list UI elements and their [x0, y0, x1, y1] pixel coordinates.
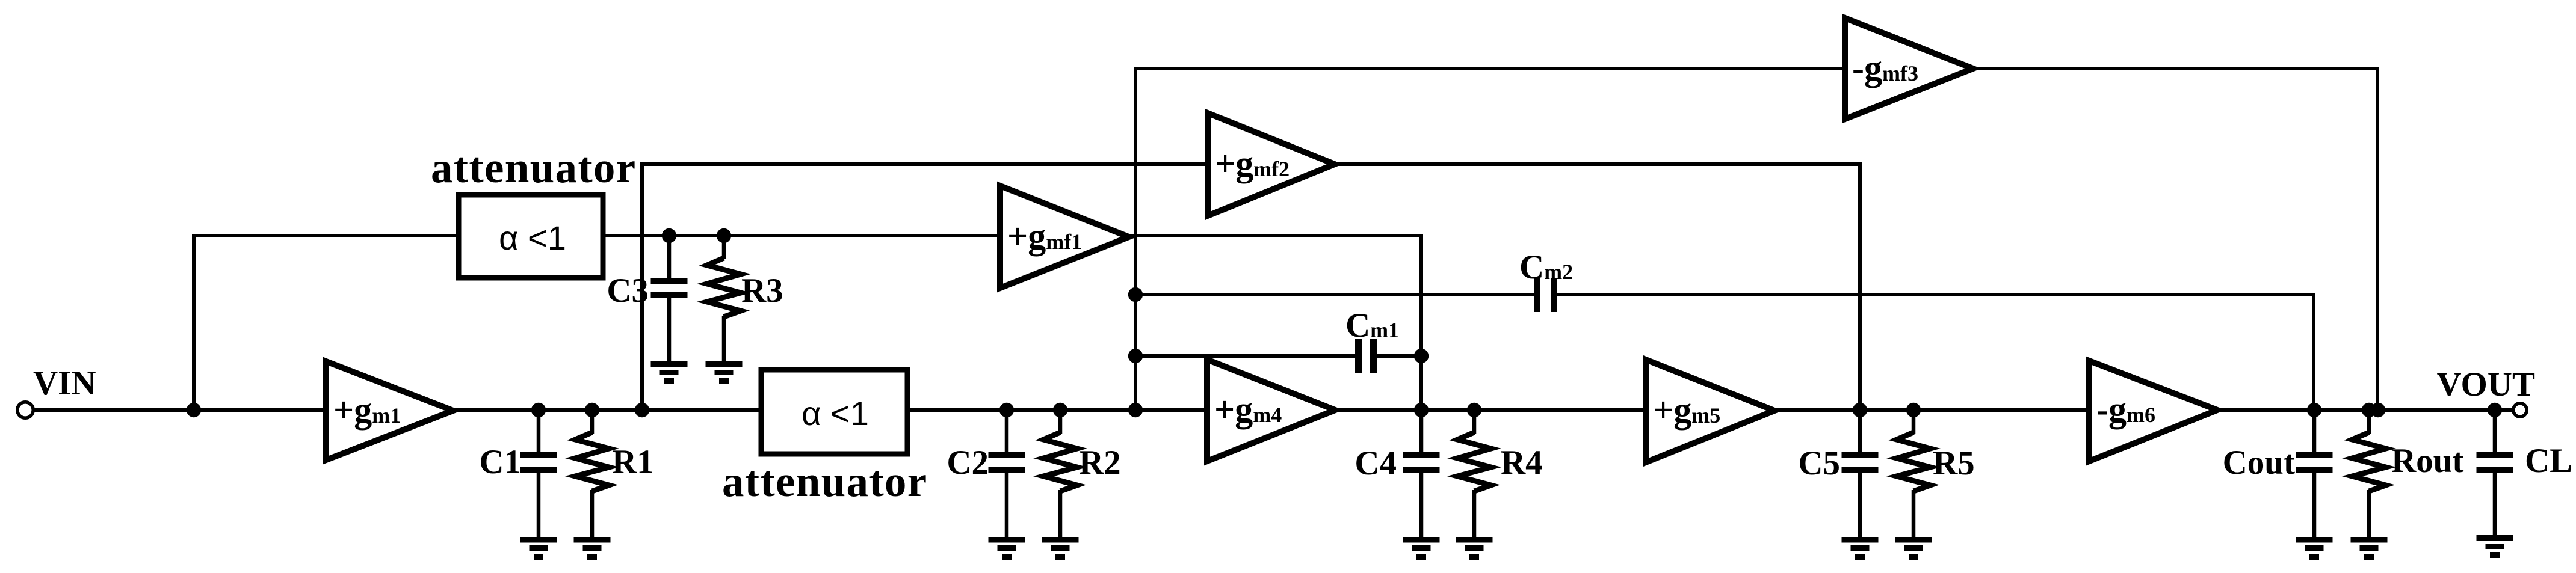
junction node A (gm1 output to gmf2 branch)	[635, 403, 649, 417]
amplifier gmf3	[1845, 18, 1973, 119]
svg-text:Rout: Rout	[2391, 442, 2463, 480]
capacitor Cout	[2296, 410, 2333, 537]
capacitor C1	[520, 410, 557, 537]
resistor Rout	[2352, 410, 2386, 537]
amplifier gm5	[1646, 360, 1774, 462]
junction node gm1 output at R1	[585, 403, 599, 417]
svg-text:C4: C4	[1354, 444, 1397, 482]
amplifier gmf1	[1000, 186, 1129, 288]
ground for R4	[1456, 537, 1493, 560]
amplifier gm6	[2089, 361, 2217, 461]
capacitor CL	[2477, 410, 2513, 535]
ground for Rout	[2351, 537, 2388, 560]
junction node B (gm4 input branch)	[1128, 403, 1143, 417]
wire attenuator 2 output to gm4 input	[904, 408, 1210, 412]
ground for C4	[1403, 537, 1440, 560]
svg-text:R5: R5	[1933, 444, 1975, 482]
junction node C at Cm1 right	[1414, 349, 1429, 363]
terminal VOUT	[2513, 403, 2527, 417]
capacitor C5	[1842, 410, 1879, 537]
attenuator block 1 (alpha < 1)	[459, 195, 603, 278]
svg-text:C5: C5	[1798, 444, 1840, 482]
resistor R3	[707, 236, 741, 361]
junction output node at gmf3 feedback	[2371, 403, 2385, 417]
wire gm4 output to gm5 input	[1332, 408, 1649, 412]
capacitor C3	[651, 236, 688, 361]
wire node B to Cm1 left plate	[1135, 354, 1355, 358]
junction node C (gm4 output) at C4	[1414, 403, 1429, 417]
ground for C3	[651, 361, 688, 384]
wire node B up to gmf3 input	[1135, 69, 1848, 410]
ground for CL	[2477, 535, 2513, 558]
junction node attenuator 1 output at C3	[662, 228, 676, 243]
wire Cm1 right plate to node C	[1377, 354, 1421, 358]
svg-text:VIN: VIN	[33, 364, 96, 402]
ground for C5	[1842, 537, 1879, 560]
ground for R3	[706, 361, 743, 384]
amplifier gmf2	[1208, 113, 1335, 216]
svg-text:CL: CL	[2525, 442, 2572, 480]
junction output node at CL	[2488, 403, 2502, 417]
junction node gm4 input at C2	[999, 403, 1014, 417]
svg-text:attenuator: attenuator	[722, 457, 927, 506]
ground for Cout	[2296, 537, 2333, 560]
svg-text:R3: R3	[741, 272, 783, 310]
svg-text:α <1: α <1	[499, 219, 566, 257]
wire gm5 output to gm6 input	[1771, 408, 2092, 412]
wire gmf2 output down to gm5 output node	[1332, 164, 1860, 410]
svg-text:Cout: Cout	[2223, 444, 2295, 482]
resistor R2	[1043, 410, 1077, 537]
ground for C1	[520, 537, 557, 560]
ground for R1	[574, 537, 611, 560]
junction node gm1 output at C1	[531, 403, 546, 417]
junction node gm5 output at C5	[1853, 403, 1867, 417]
svg-text:R2: R2	[1079, 444, 1121, 482]
attenuator block 2 (alpha < 1)	[761, 370, 907, 454]
wire node A up to gmf2 input	[642, 164, 1211, 410]
resistor R4	[1457, 410, 1491, 537]
junction node gm5 output at R5	[1906, 403, 1921, 417]
wire node B to Cm2 left plate	[1135, 293, 1536, 296]
capacitor Cm1	[1355, 339, 1377, 373]
svg-text:R4: R4	[1501, 444, 1543, 482]
svg-text:attenuator: attenuator	[431, 143, 636, 192]
svg-text:R1: R1	[612, 443, 654, 481]
junction node B at Cm2 branch	[1128, 287, 1143, 302]
amplifier gm1	[326, 361, 453, 460]
capacitor C4	[1403, 410, 1440, 537]
junction output node at Rout	[2362, 403, 2376, 417]
wire VIN node up to attenuator 1 input	[194, 236, 461, 410]
capacitor C2	[989, 410, 1025, 537]
svg-text:C2: C2	[947, 444, 989, 482]
capacitor Cm2	[1534, 278, 1557, 312]
junction node gm4 output at R4	[1467, 403, 1481, 417]
wire gm6 output to VOUT	[2214, 408, 2515, 412]
svg-text:α <1: α <1	[802, 394, 869, 432]
ground for C2	[989, 537, 1025, 560]
amplifier gm4	[1207, 360, 1335, 461]
junction node B at Cm1 branch	[1128, 349, 1143, 363]
svg-text:VOUT: VOUT	[2436, 366, 2535, 403]
junction output node at Cout	[2307, 403, 2321, 417]
junction node attenuator 1 output at R3	[717, 228, 731, 243]
junction node gm4 input at R2	[1053, 403, 1067, 417]
ground for R5	[1895, 537, 1932, 560]
wire attenuator 1 output to gmf1 input	[601, 234, 1003, 237]
terminal VIN	[17, 402, 33, 418]
resistor R5	[1897, 410, 1930, 537]
wire gmf3 output down to output node	[1970, 69, 2377, 410]
svg-text:C3: C3	[607, 272, 649, 310]
ground for R2	[1042, 537, 1079, 560]
wire gm1 output to attenuator 2 input	[450, 408, 764, 412]
wire VIN to gm1 input	[28, 408, 329, 412]
wire Cm2 right plate down to output node	[1557, 295, 2314, 410]
svg-text:C1: C1	[479, 443, 521, 481]
wire gmf1 output down to node C	[1129, 236, 1421, 410]
resistor R1	[575, 410, 609, 537]
junction node VIN branch	[187, 403, 201, 417]
